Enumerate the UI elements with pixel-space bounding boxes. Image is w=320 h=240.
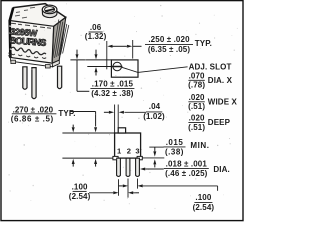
svg-text:ADJ. SLOT: ADJ. SLOT xyxy=(189,63,232,72)
svg-text:.250 ± .020: .250 ± .020 xyxy=(148,35,190,44)
.020 deep xyxy=(188,113,231,131)
iso pin 2 xyxy=(32,68,36,99)
svg-text:TYP.: TYP. xyxy=(58,109,75,118)
iso trimpot body xyxy=(8,4,69,64)
svg-text:.015: .015 xyxy=(166,138,184,147)
.170 text xyxy=(90,79,134,97)
.270 text xyxy=(11,105,76,123)
iso adjustment screw xyxy=(42,5,57,18)
svg-text:.170 ± .015: .170 ± .015 xyxy=(92,79,134,88)
svg-text:(6.86 ± .5): (6.86 ± .5) xyxy=(11,115,54,124)
iso front face markings xyxy=(8,23,51,58)
left .100 text xyxy=(69,182,91,200)
svg-text:.020: .020 xyxy=(189,113,205,122)
.270 leader xyxy=(70,112,97,133)
svg-text:.070: .070 xyxy=(189,71,205,80)
svg-text:(2.54): (2.54) xyxy=(193,203,215,212)
svg-text:2: 2 xyxy=(127,147,131,156)
svg-text:(1.32): (1.32) xyxy=(85,32,107,41)
.018 leader xyxy=(140,168,164,171)
front pin 2 xyxy=(126,158,130,176)
.270 lower arrows xyxy=(72,159,97,167)
svg-text:3: 3 xyxy=(135,147,139,156)
pins 1-2 dimension xyxy=(89,191,139,194)
iso pin 3 xyxy=(58,66,62,89)
pin labels 1 2 3 xyxy=(117,147,140,156)
svg-text:(1.02): (1.02) xyxy=(143,112,165,121)
svg-text:(4.32 ± .38): (4.32 ± .38) xyxy=(91,89,134,98)
svg-text:.020: .020 xyxy=(189,93,205,102)
.015 text xyxy=(164,138,210,156)
top edge extension line xyxy=(70,59,111,61)
.270 extra arrow xyxy=(72,125,75,133)
.250 text xyxy=(145,35,212,54)
.020 wide xyxy=(188,93,237,111)
svg-text:(.51): (.51) xyxy=(188,102,205,111)
svg-text:WIDE X: WIDE X xyxy=(208,97,238,106)
svg-text:(6.35 ± .05): (6.35 ± .05) xyxy=(148,45,191,54)
.250 dimension xyxy=(107,40,142,69)
svg-text:.018 ± .001: .018 ± .001 xyxy=(166,160,208,169)
pin extension lines xyxy=(119,179,138,198)
top view screw circle xyxy=(112,62,122,71)
svg-text:.100: .100 xyxy=(72,182,88,191)
front pin 3 xyxy=(136,158,140,176)
svg-text:(.78): (.78) xyxy=(188,81,205,90)
ADJ. SLOT label xyxy=(189,63,232,72)
front pin 1 xyxy=(117,158,121,176)
svg-text:DIA. X: DIA. X xyxy=(208,76,233,85)
right .100 text xyxy=(193,193,215,212)
svg-text:DIA.: DIA. xyxy=(213,165,229,174)
slot level extension line xyxy=(87,66,111,68)
body top ext line xyxy=(62,132,114,134)
svg-text:.04: .04 xyxy=(149,102,161,111)
svg-text:.100: .100 xyxy=(195,193,211,202)
.06 dim arrows xyxy=(95,50,98,76)
svg-text:.06: .06 xyxy=(90,23,102,32)
pins 2-3 dimension xyxy=(119,184,218,190)
svg-text:(.51): (.51) xyxy=(188,123,205,132)
.018 text xyxy=(164,160,230,178)
.070 dia xyxy=(188,71,233,89)
iso pin 1 xyxy=(23,67,27,90)
body bottom ext line xyxy=(62,157,114,159)
svg-text:.270 ± .020: .270 ± .020 xyxy=(13,105,54,114)
svg-text:(.46 ± .025): (.46 ± .025) xyxy=(165,169,208,178)
.170 leader xyxy=(76,50,90,92)
front view body xyxy=(113,128,142,160)
svg-text:(.38): (.38) xyxy=(165,147,184,156)
svg-text:(2.54): (2.54) xyxy=(69,192,91,201)
svg-text:MIN.: MIN. xyxy=(190,141,209,150)
top view outline xyxy=(111,60,138,77)
.06 text xyxy=(85,23,107,41)
svg-text:DEEP: DEEP xyxy=(208,118,231,127)
svg-text:TYP.: TYP. xyxy=(195,39,212,48)
.015 dimension xyxy=(142,147,164,167)
.04 dimension xyxy=(104,105,146,134)
iso standoff feet xyxy=(10,58,59,68)
.04 text xyxy=(143,102,165,121)
frame border xyxy=(1,1,243,221)
svg-text:1: 1 xyxy=(117,147,122,156)
leader to ADJ. SLOT xyxy=(122,67,188,73)
